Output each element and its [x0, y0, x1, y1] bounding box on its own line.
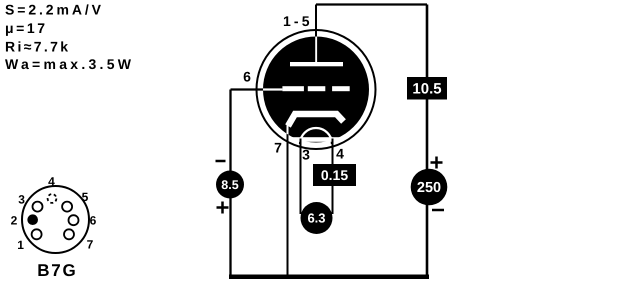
- svg-text:B7G: B7G: [37, 261, 76, 280]
- svg-text:4: 4: [336, 146, 344, 162]
- svg-text:10.5: 10.5: [412, 81, 441, 98]
- svg-text:2: 2: [11, 214, 18, 228]
- svg-text:μ=17: μ=17: [5, 20, 45, 36]
- svg-text:4: 4: [48, 175, 55, 189]
- svg-text:250: 250: [417, 180, 441, 196]
- svg-text:6.3: 6.3: [307, 211, 325, 226]
- svg-text:Ri≈7.7k: Ri≈7.7k: [5, 39, 68, 55]
- svg-text:6: 6: [90, 214, 97, 228]
- svg-text:0.15: 0.15: [321, 167, 348, 183]
- svg-text:S=2.2mA/V: S=2.2mA/V: [5, 2, 102, 18]
- svg-text:6: 6: [243, 69, 251, 85]
- svg-text:7: 7: [274, 140, 282, 156]
- svg-text:8.5: 8.5: [221, 178, 238, 192]
- svg-text:Wa=max.3.5W: Wa=max.3.5W: [5, 56, 132, 72]
- svg-text:3: 3: [302, 147, 310, 163]
- svg-text:3: 3: [18, 193, 25, 207]
- svg-text:1: 1: [17, 238, 24, 252]
- svg-text:5: 5: [82, 190, 89, 204]
- svg-text:7: 7: [87, 238, 94, 252]
- svg-text:1-5: 1-5: [283, 13, 310, 29]
